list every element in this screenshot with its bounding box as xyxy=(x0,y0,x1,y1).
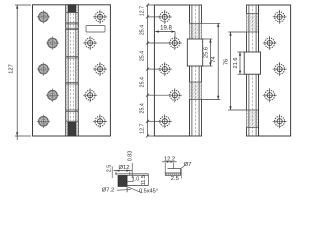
dimension 21.6 xyxy=(233,52,244,74)
svg-text:25.6: 25.6 xyxy=(203,47,209,58)
right view knuckle strip xyxy=(247,5,259,136)
detail 1: countersink section xyxy=(102,151,158,195)
left leaf hole row1 (countersunk, dark) xyxy=(37,10,50,23)
right leaf hole row1 (light, back side) xyxy=(93,10,107,24)
svg-text:1.0: 1.0 xyxy=(132,177,140,183)
right view leaf outline xyxy=(259,5,291,136)
svg-text:21.6: 21.6 xyxy=(233,58,239,69)
svg-text:25.4: 25.4 xyxy=(140,25,146,35)
dimension 76 xyxy=(224,32,247,110)
svg-text:25.4: 25.4 xyxy=(140,51,146,61)
svg-text:12.7: 12.7 xyxy=(140,123,146,133)
svg-text:2.5: 2.5 xyxy=(107,165,113,173)
middle view knuckle strip xyxy=(190,5,202,136)
left leaf hole row3 xyxy=(37,63,50,76)
svg-text:76: 76 xyxy=(224,59,230,65)
svg-text:11.5: 11.5 xyxy=(141,175,147,185)
svg-text:74: 74 xyxy=(211,56,217,62)
svg-text:25.4: 25.4 xyxy=(140,103,146,113)
middle view holes xyxy=(158,10,182,128)
left view knuckle bottom cap (dark) xyxy=(68,122,76,135)
right view holes xyxy=(263,10,287,128)
left view knuckle division lines xyxy=(66,12,79,121)
right leaf hole row5 xyxy=(93,114,107,128)
middle view mating knuckle block xyxy=(187,39,202,66)
svg-text:19.8: 19.8 xyxy=(160,26,172,32)
middle view chain dimension line xyxy=(148,5,171,136)
svg-text:25.4: 25.4 xyxy=(140,77,146,87)
dimension 19.8 xyxy=(155,26,175,41)
right leaf hole row3 xyxy=(93,62,107,76)
right leaf hole row2 xyxy=(83,36,97,50)
left leaf hole row2 xyxy=(46,36,59,49)
svg-text:0.5x45°: 0.5x45° xyxy=(139,189,158,195)
svg-text:Ø7.2: Ø7.2 xyxy=(102,187,115,193)
left view knuckle strip xyxy=(66,5,79,136)
middle view leaf outline xyxy=(154,5,189,136)
left view knuckle top cap (dark) xyxy=(68,5,76,12)
detail 2: pin washer section xyxy=(162,157,191,182)
svg-text:Ø7: Ø7 xyxy=(184,162,192,168)
left leaf hole row4 xyxy=(46,89,59,102)
stamp rectangle xyxy=(86,26,105,33)
left view outline xyxy=(33,5,111,136)
svg-text:2.5: 2.5 xyxy=(171,176,179,182)
chain tick marks xyxy=(146,4,149,138)
svg-text:127: 127 xyxy=(8,64,14,74)
right leaf hole row4 xyxy=(83,88,97,102)
right view mating knuckle block xyxy=(244,52,260,74)
chain labels xyxy=(140,6,146,134)
dimension 74 xyxy=(202,23,221,99)
dimension 25.6 xyxy=(203,39,213,66)
dimension 127 xyxy=(8,5,31,140)
svg-text:0.83: 0.83 xyxy=(128,151,134,162)
left leaf hole row5 xyxy=(37,115,50,128)
svg-text:12.7: 12.7 xyxy=(140,6,146,16)
